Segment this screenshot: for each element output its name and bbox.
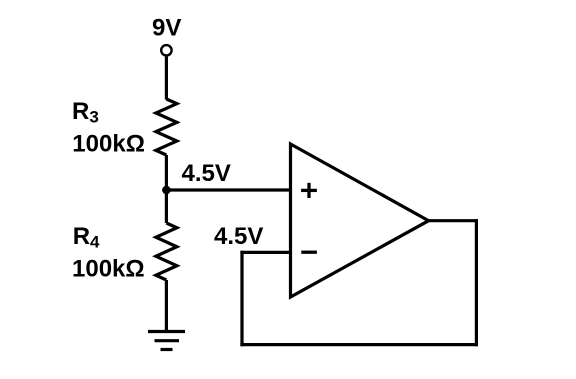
terminal 9V (open circle): [161, 45, 171, 55]
wire inverting input: [240, 251, 290, 254]
op-amp − input marker: [301, 251, 317, 254]
svg-text:100kΩ: 100kΩ: [72, 256, 145, 283]
wire node to op-amp noninverting input: [166, 188, 290, 191]
wire terminal to R3: [165, 57, 168, 100]
svg-text:4.5V: 4.5V: [214, 223, 263, 250]
wire feedback left vertical: [240, 251, 243, 346]
op-amp U1: [291, 144, 429, 297]
resistor R4: [156, 223, 177, 280]
resistor R3: [156, 99, 177, 155]
wire output: [429, 219, 478, 222]
wire R4 to ground: [165, 280, 168, 332]
wire R3 to R4 through node: [165, 155, 168, 223]
node junction dot: [162, 186, 171, 195]
op-amp + input marker: [301, 183, 317, 198]
wire feedback right vertical: [475, 219, 478, 346]
svg-text:100kΩ: 100kΩ: [72, 131, 145, 158]
wire feedback bottom: [240, 343, 478, 346]
svg-text:4.5V: 4.5V: [182, 160, 231, 187]
svg-text:9V: 9V: [152, 15, 181, 42]
ground: [148, 332, 185, 350]
